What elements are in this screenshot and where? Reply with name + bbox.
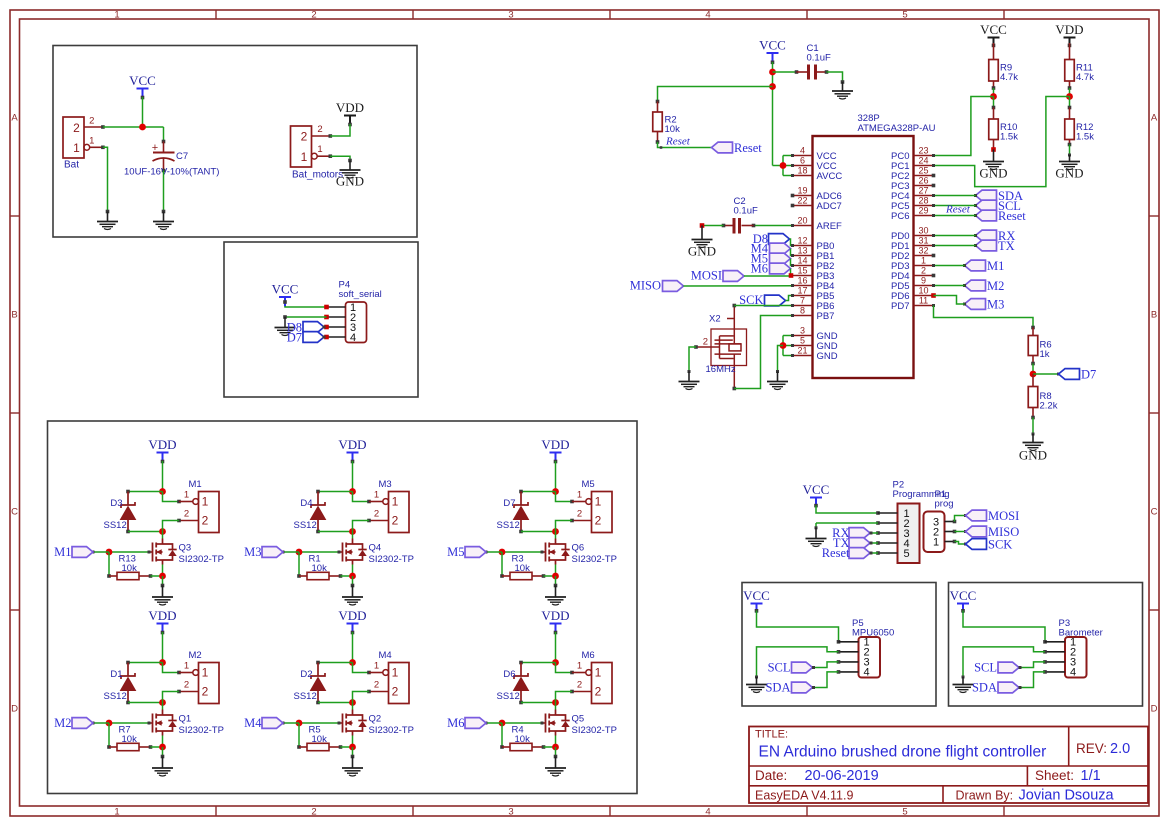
svg-text:SS12: SS12 — [104, 691, 127, 702]
svg-text:SS12: SS12 — [104, 520, 127, 531]
U1 pin 17 PB5 — [793, 295, 813, 297]
svg-text:2: 2 — [374, 509, 379, 520]
ground C7 — [153, 221, 174, 223]
wire down to C7 — [163, 127, 165, 142]
wire gate junction to flag M6 — [486, 722, 502, 724]
svg-text:2: 2 — [184, 680, 189, 691]
wire source node to ground Q4 — [352, 576, 354, 586]
svg-text:SI2302-TP: SI2302-TP — [179, 725, 224, 736]
wire connector pin2 to lower junction M1 — [163, 521, 180, 532]
junction GND pins node — [780, 342, 787, 349]
wire R6 to junction — [1032, 364, 1034, 375]
wire resistor to source node R7 — [151, 746, 163, 748]
svg-text:1.5k: 1.5k — [1076, 132, 1094, 143]
svg-text:1: 1 — [933, 537, 939, 549]
net flag M4 mcu — [770, 243, 791, 254]
net flag Reset mcu — [712, 142, 733, 153]
wire M4 flag to PB1 — [791, 249, 793, 256]
wire R12 to ground — [1069, 145, 1071, 156]
svg-text:4.7k: 4.7k — [1000, 72, 1018, 83]
svg-text:1: 1 — [202, 666, 209, 680]
svg-text:1: 1 — [184, 490, 189, 501]
svg-text:EN Arduino brushed drone fligh: EN Arduino brushed drone flight controll… — [759, 744, 1047, 761]
wire AREF to C2 — [754, 225, 793, 227]
wire resistor to source node R4 — [544, 746, 556, 748]
svg-text:2: 2 — [392, 514, 399, 528]
wire D8 flag to PB0 — [790, 239, 793, 246]
U1 pin 14 PB2 — [793, 265, 813, 267]
ruler ticks bottom — [215, 806, 217, 816]
wire VCC to P3 pin1 — [963, 611, 1065, 642]
U1 pin 28 PC5 — [914, 205, 934, 207]
diode D2 SS12 schottky — [317, 663, 319, 677]
svg-text:30: 30 — [918, 226, 928, 236]
wire gate junction to flag M1 — [93, 551, 109, 553]
svg-text:1: 1 — [184, 661, 189, 672]
svg-text:5: 5 — [902, 10, 907, 21]
svg-text:ATMEGA328P-AU: ATMEGA328P-AU — [858, 123, 936, 134]
junction motor node M6 — [552, 699, 559, 706]
wire source node to ground Q3 — [162, 576, 164, 586]
gate wire Q4 — [339, 551, 343, 553]
svg-text:SI2302-TP: SI2302-TP — [369, 725, 414, 736]
connector P3 pin stubs — [1045, 641, 1065, 643]
wire junction to D7 flag — [1033, 373, 1059, 375]
svg-text:2: 2 — [202, 514, 209, 528]
net flag SDA — [976, 190, 997, 201]
svg-text:26: 26 — [918, 176, 928, 186]
junction source node Q5 — [552, 744, 559, 751]
svg-text:1k: 1k — [1040, 349, 1050, 360]
svg-text:M5: M5 — [582, 479, 595, 490]
ground P5 — [746, 684, 767, 686]
svg-text:SS12: SS12 — [497, 520, 520, 531]
connector M5 pin 1 — [572, 501, 586, 503]
U1 pin 8 PB7 — [793, 315, 813, 317]
svg-text:prog: prog — [935, 499, 954, 510]
ground P3 — [953, 684, 974, 686]
junction R11 R12 node — [1066, 93, 1073, 100]
svg-text:M6: M6 — [582, 650, 595, 661]
svg-text:1: 1 — [577, 490, 582, 501]
net flag Reset pc6 — [976, 210, 997, 221]
svg-text:D6: D6 — [503, 669, 515, 680]
svg-text:1/1: 1/1 — [1081, 768, 1101, 784]
wire diode anode to lower junction M3 — [318, 531, 353, 533]
connector P5 MPU6050 — [859, 637, 881, 678]
svg-text:20-06-2019: 20-06-2019 — [805, 768, 879, 784]
wire C1 to ground — [827, 72, 843, 82]
net flag M3 mcu — [965, 299, 986, 310]
svg-text:M1: M1 — [189, 479, 202, 490]
net flag TX — [976, 240, 997, 251]
connector Bat_motors pin 1 — [311, 153, 317, 159]
junction VDD node M5 — [552, 488, 559, 495]
svg-text:2: 2 — [184, 509, 189, 520]
resistor R7 10k — [109, 746, 117, 748]
wire junction to diode D6 — [521, 662, 556, 664]
svg-text:21: 21 — [797, 346, 807, 356]
ground P2 — [806, 538, 827, 540]
svg-text:VCC: VCC — [272, 282, 299, 297]
capacitor C7 polarized — [163, 142, 165, 153]
svg-text:24: 24 — [918, 156, 928, 166]
wire GND pins bus — [782, 336, 784, 356]
diode D1 SS12 schottky — [127, 663, 129, 677]
wire Bat pin2 to C7 — [103, 126, 164, 128]
svg-text:16MHz: 16MHz — [706, 364, 736, 375]
sensor section box P3 — [949, 583, 1143, 707]
wire junction to diode D3 — [128, 491, 163, 493]
battery section box — [53, 46, 417, 238]
svg-text:1: 1 — [114, 10, 119, 21]
wire gate junction to flag M4 — [283, 722, 299, 724]
U1 unconnected pin dots right — [932, 174, 936, 178]
resistor R2 10k — [657, 102, 659, 113]
ground R10 — [983, 161, 1004, 163]
connector Bat_motors pin 2 — [312, 135, 331, 137]
net flag SDA P3 — [998, 682, 1019, 693]
junction gate node Q3 — [106, 549, 113, 556]
wire P2 pin2 to ground — [816, 522, 878, 524]
soft serial section box — [224, 242, 418, 397]
wire resistor to source node R3 — [544, 575, 556, 577]
net flag MOSI prog — [966, 510, 987, 521]
transistor Q5 SI2302-TP mosfet — [555, 710, 557, 716]
svg-text:5: 5 — [902, 807, 907, 818]
svg-text:Reset: Reset — [734, 141, 762, 155]
wire source down Q3 — [162, 565, 164, 577]
connector M1 pin 2 — [179, 520, 199, 522]
transistor Q3 SI2302-TP mosfet — [162, 539, 164, 545]
svg-text:D4: D4 — [300, 498, 312, 509]
wire lower junction to transistor drain Q1 — [162, 703, 164, 710]
junction VDD node M1 — [159, 488, 166, 495]
wire VCC to power pins — [773, 165, 784, 167]
svg-text:10: 10 — [918, 286, 928, 296]
net flag D8 mcu — [769, 234, 790, 245]
connector M5 — [592, 492, 613, 533]
ground C1 — [832, 90, 853, 92]
net flag M6 input — [465, 718, 486, 729]
wire diode anode to lower junction M1 — [128, 531, 163, 533]
svg-text:M3: M3 — [244, 545, 261, 559]
crystal X2 16MHz resonator — [711, 329, 747, 366]
svg-text:Q3: Q3 — [179, 543, 192, 554]
svg-text:11: 11 — [919, 296, 928, 306]
diode D3 SS12 schottky — [127, 492, 129, 506]
svg-text:27: 27 — [918, 186, 928, 196]
wire junction to connector pin1 M1 — [163, 492, 180, 502]
svg-text:M5: M5 — [447, 545, 464, 559]
wire VDD to pin 2 — [330, 124, 350, 136]
svg-text:VCC: VCC — [803, 482, 830, 497]
wire connector pin2 to lower junction M3 — [353, 521, 370, 532]
wire source down Q6 — [555, 565, 557, 577]
connector M2 pin 1 — [179, 672, 193, 674]
wire gate junction to flag M5 — [486, 551, 502, 553]
ground Bat pin1 — [97, 221, 118, 223]
svg-text:29: 29 — [918, 206, 928, 216]
wire Bat pin1 to ground — [103, 147, 108, 211]
wire source node to ground Q2 — [352, 747, 354, 757]
svg-text:9: 9 — [921, 276, 926, 286]
connector M1 pin 1 — [179, 501, 193, 503]
wire SDA to P3 pin4 — [1019, 672, 1045, 688]
svg-text:VDD: VDD — [336, 100, 364, 115]
svg-text:Sheet:: Sheet: — [1035, 768, 1074, 783]
svg-text:SI2302-TP: SI2302-TP — [369, 554, 414, 565]
svg-text:10UF-16V-10%(TANT): 10UF-16V-10%(TANT) — [124, 167, 219, 178]
wire source down Q5 — [555, 736, 557, 748]
gate wire Q3 — [149, 551, 153, 553]
svg-text:M1: M1 — [987, 259, 1004, 273]
wire P3 pin2 to ground — [963, 647, 1045, 677]
wire junction to connector pin1 M3 — [353, 492, 370, 502]
svg-text:1: 1 — [595, 495, 602, 509]
U1 pin 20 AREF — [793, 225, 813, 227]
svg-text:ADC7: ADC7 — [817, 201, 842, 212]
svg-text:Reset: Reset — [998, 209, 1026, 223]
connector P2 Programming — [898, 504, 920, 564]
svg-text:Date:: Date: — [755, 768, 787, 783]
wire R2 to Reset flag — [658, 142, 712, 148]
connector M4 — [389, 663, 410, 704]
U1 unconnected pin dots left — [791, 194, 795, 198]
svg-text:GND: GND — [688, 244, 716, 259]
svg-text:B: B — [11, 310, 17, 321]
svg-text:0.1uF: 0.1uF — [734, 206, 758, 217]
svg-text:MISO: MISO — [630, 279, 661, 293]
svg-text:2: 2 — [317, 124, 322, 135]
svg-text:VCC: VCC — [950, 588, 977, 603]
ground C2 — [692, 239, 713, 241]
title block outline — [749, 727, 1148, 804]
svg-text:C: C — [11, 507, 18, 518]
svg-text:2: 2 — [89, 116, 94, 127]
svg-text:M3: M3 — [379, 479, 392, 490]
svg-text:D2: D2 — [300, 669, 312, 680]
wire gate junction down to resistor R3 — [501, 552, 503, 576]
junction motor node M2 — [159, 699, 166, 706]
ground Bat_motors — [340, 169, 361, 171]
connector M3 — [389, 492, 410, 533]
junction VDD node M6 — [552, 659, 559, 666]
svg-text:7: 7 — [800, 296, 805, 306]
resistor R12 1.5k — [1069, 97, 1071, 108]
svg-text:M6: M6 — [447, 716, 464, 730]
svg-text:Barometer: Barometer — [1059, 628, 1103, 639]
wire junction to connector pin1 M4 — [353, 663, 370, 673]
U1 pin 31 PD1 — [914, 245, 934, 247]
svg-text:4: 4 — [705, 10, 710, 21]
resistor R13 10k — [109, 575, 117, 577]
svg-text:GND: GND — [979, 166, 1007, 181]
crystal X2 pin 2 — [696, 346, 720, 348]
net flag M2 mcu — [965, 280, 986, 291]
wire gate junction to flag M2 — [93, 722, 109, 724]
wire PC5 to SCL — [934, 205, 976, 207]
wire P1 pin2 to MISO — [955, 531, 966, 533]
wire resistor to source node R5 — [341, 746, 353, 748]
wire P5 pin2 to ground — [757, 647, 839, 677]
connector Bat_motors — [291, 126, 312, 167]
junction D7 node — [1030, 371, 1037, 378]
junction R2 branch node — [769, 83, 776, 90]
svg-text:2: 2 — [311, 10, 316, 21]
svg-text:3: 3 — [800, 326, 805, 336]
junction motor node M3 — [349, 528, 356, 535]
connector P2 pin stubs — [878, 512, 898, 514]
wire M6 flag to PB3 — [791, 269, 793, 276]
svg-text:25: 25 — [918, 166, 928, 176]
wire diode anode to lower junction M5 — [521, 531, 556, 533]
U1 pin 2 PD4 — [914, 275, 934, 277]
U1 pin 1 PD3 — [914, 265, 934, 267]
diode D4 SS12 schottky — [317, 492, 319, 506]
wire MOSI to PB3 — [744, 275, 791, 277]
svg-text:Q1: Q1 — [179, 714, 192, 725]
svg-text:Reset: Reset — [822, 546, 850, 560]
connector M5 pin 2 — [572, 520, 592, 522]
svg-text:soft_serial: soft_serial — [339, 289, 382, 300]
U1 pin 4 VCC — [793, 155, 813, 157]
wire SCL to P5 pin3 — [813, 662, 839, 668]
svg-text:2: 2 — [301, 130, 308, 144]
svg-text:VDD: VDD — [148, 437, 176, 452]
wire SCL to P3 pin3 — [1019, 662, 1045, 668]
svg-text:3: 3 — [508, 807, 513, 818]
svg-text:SCK: SCK — [988, 538, 1012, 552]
wire gate junction down to resistor R4 — [501, 723, 503, 747]
U1 pin 16 PB4 — [793, 285, 813, 287]
connector M6 — [592, 663, 613, 704]
svg-text:SI2302-TP: SI2302-TP — [179, 554, 224, 565]
svg-text:Q2: Q2 — [369, 714, 382, 725]
svg-text:22: 22 — [797, 196, 807, 206]
svg-text:1: 1 — [317, 144, 322, 155]
wire junction to diode D1 — [128, 662, 163, 664]
junction power pins node — [782, 156, 784, 176]
net flag M2 input — [72, 718, 93, 729]
svg-text:SI2302-TP: SI2302-TP — [572, 725, 617, 736]
crystal X2 pin 3 — [733, 354, 735, 388]
wire gate junction to flag M3 — [283, 551, 299, 553]
ground Q2 — [342, 767, 363, 769]
connector Bat pin 2 — [84, 126, 103, 128]
wire PC4 to SDA — [934, 195, 976, 197]
wire VDD down M1 — [162, 461, 164, 492]
U1 pin 10 PD6 — [914, 295, 934, 297]
wire resistor to source node R1 — [341, 575, 353, 577]
title block REV divider — [1068, 727, 1070, 767]
net flag D8 soft serial — [303, 322, 324, 333]
svg-text:Q6: Q6 — [572, 543, 585, 554]
junction VCC C1 node — [769, 69, 776, 76]
svg-text:VCC: VCC — [759, 38, 786, 53]
svg-text:2: 2 — [392, 685, 399, 699]
svg-text:D3: D3 — [110, 498, 122, 509]
junction VDD node M2 — [159, 659, 166, 666]
connector P1 pin stubs — [945, 521, 955, 523]
wire VCC to P5 pin1 — [757, 611, 859, 642]
svg-text:AVCC: AVCC — [817, 171, 843, 182]
svg-text:SS12: SS12 — [294, 691, 317, 702]
ruler ticks right — [1149, 215, 1159, 217]
wire PD6 to M3 — [931, 293, 936, 298]
svg-text:D7: D7 — [287, 331, 302, 345]
U1 pin 3 GND — [793, 335, 813, 337]
wire TX flag to P2 pin4 — [870, 542, 878, 544]
wire SDA to P5 pin4 — [813, 672, 839, 688]
wire junction to PC0 — [934, 97, 994, 156]
svg-text:2: 2 — [73, 121, 80, 135]
svg-text:4: 4 — [705, 807, 710, 818]
svg-text:X2: X2 — [709, 314, 721, 325]
svg-text:M6: M6 — [751, 262, 768, 276]
svg-text:SS12: SS12 — [294, 520, 317, 531]
wire source down Q2 — [352, 736, 354, 748]
svg-text:B: B — [1151, 310, 1157, 321]
resistor R4 10k — [502, 746, 510, 748]
svg-text:1: 1 — [73, 141, 80, 155]
net flag SCL — [976, 200, 997, 211]
wire resistor to source node R13 — [151, 575, 163, 577]
ground soft serial — [275, 327, 296, 329]
connector M6 pin 2 — [572, 691, 592, 693]
svg-text:VCC: VCC — [129, 73, 156, 88]
svg-text:MPU6050: MPU6050 — [852, 628, 894, 639]
U1 pin 9 PD5 — [914, 285, 934, 287]
wire junction to diode D7 — [521, 491, 556, 493]
svg-text:1: 1 — [301, 150, 308, 164]
svg-text:10k: 10k — [515, 563, 531, 574]
resistor R3 10k — [502, 575, 510, 577]
net flag SDA P5 — [792, 682, 813, 693]
wire lower junction to transistor drain Q4 — [352, 532, 354, 539]
connector M6 pin 1 — [572, 672, 586, 674]
svg-text:18: 18 — [797, 166, 807, 176]
svg-text:VCC: VCC — [980, 22, 1007, 37]
wire to capacitor C1 — [773, 71, 797, 73]
svg-text:6: 6 — [800, 156, 805, 166]
connector M2 pin 2 — [179, 691, 199, 693]
svg-text:5: 5 — [800, 336, 805, 346]
svg-text:14: 14 — [797, 256, 807, 266]
crystal X2 pin 1 — [733, 306, 735, 344]
svg-text:1: 1 — [921, 256, 926, 266]
wire PD1 to TX — [934, 245, 976, 247]
junction motor node M5 — [552, 528, 559, 535]
wire junction to connector pin1 M6 — [556, 663, 573, 673]
svg-text:M2: M2 — [54, 716, 71, 730]
svg-text:Drawn By:: Drawn By: — [956, 789, 1014, 803]
net flag D7 soft serial — [303, 332, 324, 343]
wire VCC down — [772, 62, 774, 166]
junction motor node M4 — [349, 699, 356, 706]
ground R8 — [1023, 442, 1044, 444]
connector M1 — [199, 492, 220, 533]
svg-text:PC6: PC6 — [891, 211, 909, 222]
U1 pin 27 PC4 — [914, 195, 934, 197]
wire to R2 — [658, 87, 773, 102]
title block Sheet divider — [1026, 766, 1028, 786]
svg-text:D7: D7 — [503, 498, 515, 509]
svg-text:SDA: SDA — [765, 681, 790, 695]
wire gate junction down to resistor R1 — [298, 552, 300, 576]
wire PD5 to M2 — [934, 285, 965, 287]
net flag D7 mcu — [1059, 369, 1080, 380]
